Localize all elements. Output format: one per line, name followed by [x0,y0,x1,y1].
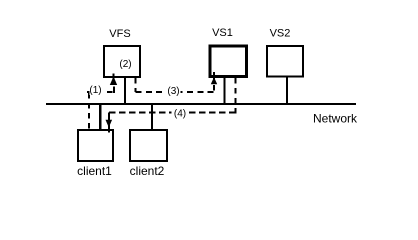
label (3) [167,86,181,98]
dashed path (3) VFS to VS1 [136,78,215,92]
box VS2 [267,46,303,77]
label VS1 [212,27,233,39]
label VS2 [270,28,291,40]
svg-text:VS2: VS2 [270,28,291,40]
label (2) step inside VFS [119,59,131,70]
dashed path (1) client1 to VFS [87,87,114,129]
wire VS2 to network [286,77,288,104]
svg-text:(1): (1) [89,85,101,96]
svg-text:VS1: VS1 [212,27,233,39]
wire network bus [46,103,356,105]
svg-text:(3): (3) [167,86,179,97]
arrowhead (1) into VFS bottom [110,74,117,86]
wire network to client1 [99,104,102,129]
svg-text:(4): (4) [174,109,186,120]
label client2 [130,164,165,178]
label client1 [77,164,112,178]
dashed path (4) VS1 to client1 [109,78,236,121]
wire VS1 to network [223,77,225,104]
label VFS [109,28,130,40]
svg-text:client2: client2 [130,164,165,178]
arrowhead (3) into VS1 bottom [211,72,217,84]
svg-text:VFS: VFS [109,28,130,40]
box client1 [78,130,113,161]
svg-text:Network: Network [313,112,358,126]
box VFS [104,46,140,77]
svg-text:(2): (2) [119,59,131,70]
label (4) [172,108,187,120]
wire VFS to network [124,77,126,104]
box VS1 [210,46,247,77]
svg-text:client1: client1 [77,164,112,178]
label (1) [89,85,102,96]
arrowhead (4) into client1 top [106,120,113,133]
wire network to client2 [151,104,153,129]
label Network [313,112,358,126]
box client2 [130,130,167,161]
